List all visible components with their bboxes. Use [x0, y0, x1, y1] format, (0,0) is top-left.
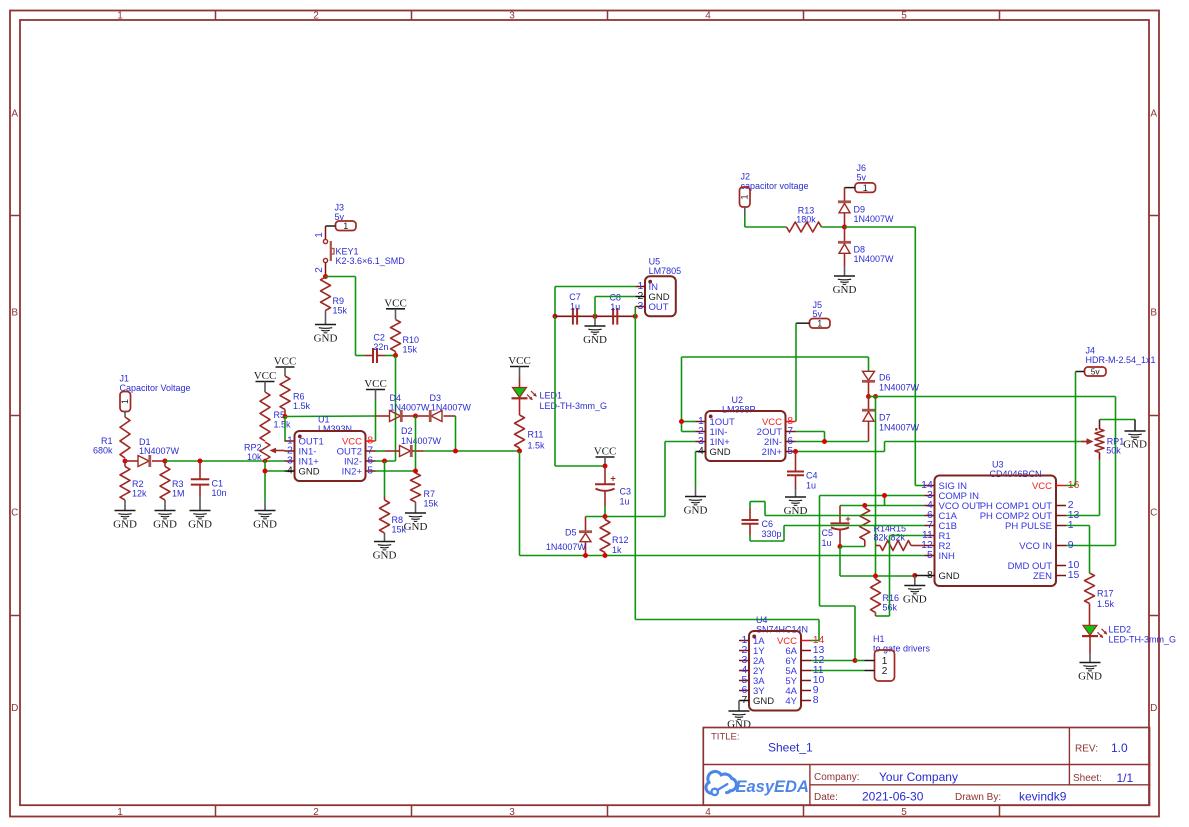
svg-text:GND: GND	[253, 519, 277, 531]
node U4 6Y junction	[853, 658, 858, 663]
node J1/R1-D1 junction	[123, 459, 128, 464]
resistor R17	[1085, 573, 1115, 625]
wire U5 OUT down	[634, 307, 636, 620]
svg-text:R11: R11	[528, 430, 544, 440]
svg-text:2021-06-30: 2021-06-30	[862, 789, 924, 803]
wire KEY1 to C2	[326, 277, 366, 356]
ground R8	[374, 541, 395, 543]
diode D1	[125, 437, 180, 467]
svg-text:2: 2	[314, 267, 325, 273]
svg-text:1N4007W: 1N4007W	[879, 382, 920, 392]
svg-text:GND: GND	[1123, 439, 1147, 451]
connector J1	[120, 374, 191, 418]
svg-text:15k: 15k	[424, 499, 439, 509]
wire R11 node down to bottom bus	[519, 451, 521, 556]
svg-text:1u: 1u	[822, 538, 832, 548]
svg-text:1.5k: 1.5k	[293, 401, 311, 411]
node R7 top junction	[413, 469, 418, 474]
node KEY1/R9 junction	[323, 274, 328, 279]
svg-text:kevindk9: kevindk9	[1019, 789, 1067, 803]
capacitor C7	[569, 292, 581, 325]
svg-text:U1: U1	[318, 415, 330, 425]
wire C2/R10 node down to U1 pin6 net	[376, 356, 396, 462]
svg-text:D: D	[1150, 703, 1157, 714]
node D4/D3 junction	[413, 414, 418, 419]
wire R6 junction down to U1 pin1	[284, 417, 287, 442]
diode D4	[375, 393, 431, 422]
capacitor C8	[609, 293, 621, 325]
wire D6/D7 node down to GND row	[875, 397, 877, 577]
svg-text:1: 1	[117, 807, 123, 818]
node R12 bottom junction	[603, 553, 608, 558]
svg-text:OUT: OUT	[649, 302, 669, 313]
svg-text:GND: GND	[753, 696, 774, 707]
svg-text:U5: U5	[649, 257, 661, 267]
LED LED1	[512, 377, 608, 415]
ground R2	[115, 510, 136, 512]
svg-text:1: 1	[817, 319, 822, 329]
wire J5 to U2 VCC	[795, 323, 797, 421]
svg-text:5: 5	[787, 445, 793, 457]
svg-text:C5: C5	[822, 528, 834, 538]
wire D3 to D2 output net	[455, 416, 457, 451]
svg-text:RP2: RP2	[244, 443, 262, 453]
wire bottom bus to U3 INH	[520, 555, 925, 557]
svg-text:8: 8	[813, 694, 819, 706]
svg-text:1N4007W: 1N4007W	[546, 542, 587, 552]
svg-text:1: 1	[343, 221, 348, 231]
node D5 bottom junction	[583, 553, 588, 558]
wire C3 bottom net	[586, 442, 696, 517]
svg-text:GND: GND	[710, 447, 731, 458]
wire C1A net to C6	[750, 502, 925, 516]
resistor R1	[93, 417, 130, 458]
svg-text:A: A	[11, 109, 18, 120]
wire 2IN+ to RP1 wiper	[796, 442, 1082, 452]
svg-text:GND: GND	[727, 719, 751, 731]
svg-text:C4: C4	[806, 470, 818, 480]
wire VCC to U1 pin8	[375, 400, 377, 441]
svg-text:GND: GND	[903, 593, 927, 605]
wire U3 GND pin	[915, 575, 925, 577]
svg-text:GND: GND	[1078, 671, 1102, 683]
title block	[703, 728, 1150, 806]
svg-text:C6: C6	[762, 519, 774, 529]
wire C5/R14 bottoms to GND row	[840, 547, 915, 577]
svg-text:GND: GND	[299, 466, 320, 477]
svg-text:ZEN: ZEN	[1033, 571, 1052, 582]
svg-text:D5: D5	[565, 527, 577, 537]
wire J4 to U3 VCC pin16	[1066, 372, 1076, 486]
svg-text:1u: 1u	[610, 302, 620, 312]
resistor R15	[876, 524, 925, 551]
svg-text:CD4046BCN: CD4046BCN	[990, 469, 1042, 479]
svg-text:D6: D6	[879, 372, 891, 382]
node RP2 wiper row	[263, 459, 267, 463]
svg-text:1N4007W: 1N4007W	[854, 214, 895, 224]
svg-text:1/1: 1/1	[1117, 771, 1134, 785]
wire R13 to D9/D8 node	[822, 226, 845, 228]
svg-text:4: 4	[698, 445, 704, 457]
svg-text:GND: GND	[314, 333, 338, 345]
node C5 bottom junction	[838, 544, 843, 549]
svg-text:Your Company: Your Company	[879, 770, 958, 784]
svg-text:R1: R1	[101, 436, 113, 446]
wire main left net	[165, 460, 285, 462]
svg-text:1N4007W: 1N4007W	[139, 446, 180, 456]
wire U2 1OUT feedback net	[682, 357, 869, 432]
LED LED2	[1082, 624, 1176, 662]
svg-text:GND: GND	[188, 519, 212, 531]
svg-text:1u: 1u	[806, 480, 816, 490]
ground U4 pin7	[738, 701, 740, 712]
svg-text:4: 4	[705, 10, 711, 21]
svg-text:2IN+: 2IN+	[762, 447, 783, 458]
svg-text:4: 4	[705, 807, 711, 818]
wire RP1 top to GND	[1100, 419, 1136, 421]
resistor R9	[321, 277, 348, 325]
svg-text:5: 5	[927, 549, 933, 561]
resistor R13	[787, 206, 822, 232]
potentiometer RP2	[244, 442, 285, 462]
svg-text:1N4007W: 1N4007W	[390, 402, 431, 412]
svg-text:1N4007W: 1N4007W	[854, 254, 895, 264]
svg-text:IN2+: IN2+	[342, 466, 363, 477]
svg-text:LED-TH-3mm_G: LED-TH-3mm_G	[540, 401, 608, 411]
svg-text:82k: 82k	[874, 533, 889, 543]
resistor R8	[380, 497, 407, 542]
node U1 pin6 junction	[382, 459, 387, 464]
ground U2 pin4	[695, 452, 697, 497]
svg-text:1.5k: 1.5k	[528, 441, 546, 451]
svg-text:GND: GND	[153, 519, 177, 531]
ground U3 pin8	[914, 576, 916, 586]
svg-text:180k: 180k	[796, 214, 816, 224]
svg-text:PH PULSE: PH PULSE	[1005, 521, 1052, 532]
svg-text:R17: R17	[1097, 588, 1114, 598]
ground RP1	[1134, 420, 1136, 432]
svg-text:5v: 5v	[857, 173, 867, 183]
svg-text:A: A	[1150, 109, 1157, 120]
svg-text:K2-3.6×6.1_SMD: K2-3.6×6.1_SMD	[336, 256, 406, 266]
svg-text:REV:: REV:	[1075, 744, 1098, 755]
svg-text:D7: D7	[879, 412, 891, 422]
wire J2 to R13	[745, 216, 787, 227]
resistor R3	[160, 461, 185, 511]
svg-text:GND: GND	[583, 334, 607, 346]
diode D7	[862, 397, 920, 442]
svg-text:1: 1	[863, 183, 868, 193]
svg-text:LED1: LED1	[540, 391, 563, 401]
svg-text:D: D	[11, 703, 18, 714]
ground R9	[315, 324, 336, 326]
svg-text:C: C	[11, 508, 18, 519]
svg-text:LED2: LED2	[1109, 624, 1132, 634]
ground RP2	[255, 510, 276, 512]
svg-text:2: 2	[882, 666, 888, 677]
svg-text:1.5k: 1.5k	[274, 420, 292, 430]
node D1-R3 junction	[163, 459, 168, 464]
connector J5	[796, 300, 830, 329]
svg-text:Drawn By:: Drawn By:	[955, 792, 1001, 803]
wire C7/C8 row	[555, 315, 635, 317]
svg-text:TITLE:: TITLE:	[711, 732, 740, 743]
svg-text:C3: C3	[620, 486, 632, 496]
diode D8	[838, 227, 894, 276]
node U5 OUT junction	[633, 314, 638, 319]
op-amp U1 LM393N	[285, 415, 376, 482]
node C3 bottom junction	[603, 514, 608, 519]
ground C1	[190, 510, 211, 512]
resistor R6	[280, 376, 311, 417]
svg-text:Sheet_1: Sheet_1	[768, 741, 813, 755]
diode D5	[546, 517, 592, 556]
connector J6	[845, 163, 876, 193]
wire 6Y to H1 pin1	[855, 660, 865, 662]
node C1 junction	[198, 459, 203, 464]
svg-text:VCC: VCC	[364, 378, 387, 390]
wire R13 node to U3 SIG IN	[845, 227, 925, 486]
resistor R2	[120, 461, 147, 511]
svg-text:2: 2	[313, 807, 319, 818]
svg-text:5: 5	[367, 464, 373, 476]
svg-text:VCC: VCC	[594, 446, 617, 458]
wire pin6 node down to R8	[384, 461, 386, 497]
svg-text:LM358P: LM358P	[722, 404, 756, 414]
node U2 pin1 junction	[679, 419, 684, 424]
node R5/R6 output junction	[283, 414, 288, 419]
node R14 top junction	[862, 503, 867, 508]
svg-text:GND: GND	[684, 505, 708, 517]
svg-text:VCC: VCC	[274, 356, 297, 368]
wire U3 PH PULSE to R17	[1066, 526, 1090, 574]
node C2/R10 junction	[393, 353, 398, 358]
capacitor C6	[742, 508, 782, 539]
svg-text:1u: 1u	[570, 301, 580, 311]
svg-text:10n: 10n	[212, 488, 227, 498]
svg-text:7: 7	[741, 694, 747, 706]
diode D3	[416, 393, 472, 422]
wire R16 bottom to U3 R1 pin	[876, 536, 925, 617]
node C3 top junction	[603, 464, 608, 469]
wire U5 OUT to U4 VCC	[635, 620, 819, 641]
svg-text:680k: 680k	[93, 446, 113, 456]
svg-text:1.5k: 1.5k	[1097, 599, 1115, 609]
wire U4 5A to H1 pin2	[811, 670, 865, 672]
node COMP IN junction	[882, 493, 887, 498]
wire D4/D3 node down to R7	[415, 416, 417, 471]
capacitor C1	[191, 461, 227, 511]
svg-text:5: 5	[901, 807, 907, 818]
svg-text:50k: 50k	[1106, 446, 1121, 456]
node U3 GND pin junction	[912, 573, 917, 578]
svg-text:LM7805: LM7805	[649, 266, 682, 276]
node C7 left junction	[553, 314, 558, 319]
ic U3 CD4046BCN	[921, 460, 1079, 586]
svg-text:VCC: VCC	[508, 355, 531, 367]
svg-text:VCC: VCC	[1032, 481, 1052, 492]
svg-text:1: 1	[739, 194, 749, 199]
EasyEDA logo	[706, 771, 809, 795]
svg-text:R9: R9	[333, 296, 345, 306]
svg-text:1: 1	[120, 399, 130, 404]
svg-text:R8: R8	[392, 515, 404, 525]
ground C4	[785, 496, 806, 498]
ic U4 SN74HC14N	[739, 615, 825, 711]
wire U2 2OUT to 2IN- and D7	[796, 432, 869, 442]
wire U5 IN rail	[555, 287, 635, 317]
capacitor C3 polarized	[595, 466, 631, 507]
svg-text:5v: 5v	[1091, 367, 1101, 377]
connector H1	[865, 634, 931, 681]
ground LED2	[1080, 662, 1101, 664]
svg-text:LM393N: LM393N	[318, 424, 352, 434]
wire R6 junction to D4 row	[285, 415, 375, 418]
svg-text:Date:: Date:	[814, 792, 838, 803]
svg-text:1k: 1k	[612, 545, 622, 555]
node R13/D9/D8 junction	[842, 225, 847, 230]
wire U5 GND pin to mid node	[595, 297, 635, 317]
node D3/D2 junction	[453, 449, 458, 454]
node C7/C8 mid junction	[593, 314, 598, 319]
svg-text:1u: 1u	[620, 496, 630, 506]
wire RP2 bottom to GND net	[265, 460, 285, 511]
svg-text:GND: GND	[373, 550, 397, 562]
wire IN rail down to C3 VCC node	[555, 316, 605, 466]
resistor R10	[391, 320, 420, 356]
svg-text:3: 3	[509, 807, 515, 818]
node R11 bottom junction	[517, 449, 522, 454]
ground C7/C8	[594, 316, 596, 326]
ground R7	[405, 512, 426, 514]
svg-text:VCO IN: VCO IN	[1019, 541, 1052, 552]
wire C2 to R10 node	[385, 355, 396, 357]
svg-text:4: 4	[287, 464, 293, 476]
wire VCO OUT row	[840, 505, 925, 507]
wire COMP IN net to U4 6Y	[811, 660, 855, 662]
wire D6/D7 node to VCO IN	[876, 397, 1116, 546]
svg-text:EasyEDA: EasyEDA	[736, 778, 809, 796]
svg-text:15k: 15k	[333, 306, 348, 316]
capacitor C2	[365, 333, 388, 364]
ground D8	[834, 275, 855, 277]
node D6/D7 junction pair	[866, 394, 878, 399]
svg-text:GND: GND	[833, 284, 857, 296]
op-amp U2 LM358P	[696, 395, 796, 461]
svg-text:C: C	[1150, 508, 1157, 519]
svg-text:Sheet:: Sheet:	[1073, 773, 1102, 784]
svg-text:15k: 15k	[403, 344, 418, 354]
svg-text:330p: 330p	[762, 529, 782, 539]
svg-text:1N4007W: 1N4007W	[431, 402, 472, 412]
svg-text:R6: R6	[293, 392, 305, 402]
wire C6 bottom to C1B net	[750, 526, 925, 542]
svg-text:VCC: VCC	[384, 297, 407, 309]
connector J2	[739, 172, 808, 216]
svg-text:1N4007W: 1N4007W	[879, 423, 920, 433]
node RP2/pin4 junction	[263, 469, 268, 474]
svg-text:+: +	[610, 473, 616, 484]
svg-text:R12: R12	[612, 535, 629, 545]
svg-text:to gate drivers: to gate drivers	[873, 644, 931, 654]
svg-text:Capacitor Voltage: Capacitor Voltage	[120, 383, 191, 393]
svg-text:Company:: Company:	[814, 772, 860, 783]
svg-text:82k: 82k	[891, 533, 906, 543]
diode D2	[376, 426, 442, 457]
svg-text:HDR-M-2.54_1x1: HDR-M-2.54_1x1	[1086, 355, 1156, 365]
node U2 pin5 junction	[793, 449, 798, 454]
diode D9	[838, 188, 894, 227]
svg-text:9: 9	[1068, 539, 1074, 551]
svg-text:GND: GND	[939, 571, 960, 582]
svg-text:12k: 12k	[132, 488, 147, 498]
wire COMP IN net	[820, 496, 925, 661]
svg-text:GND: GND	[404, 521, 428, 533]
svg-text:INH: INH	[939, 551, 956, 562]
svg-text:GND: GND	[113, 519, 137, 531]
svg-text:3: 3	[509, 10, 515, 21]
svg-text:1: 1	[314, 232, 325, 238]
svg-text:5: 5	[901, 10, 907, 21]
svg-text:VCC: VCC	[254, 370, 277, 382]
resistor R14	[860, 506, 890, 547]
wire U1 pin5 to R7	[376, 470, 416, 472]
svg-text:1.0: 1.0	[1111, 741, 1128, 755]
wire RP1 bottom to U3 pin13	[1066, 460, 1100, 516]
resistor R5	[260, 392, 291, 441]
svg-text:LED-TH-3mm_G: LED-TH-3mm_G	[1109, 635, 1177, 645]
wire D2 output to LED node	[424, 450, 520, 452]
svg-text:B: B	[11, 308, 18, 319]
svg-text:B: B	[1150, 308, 1157, 319]
svg-text:R16: R16	[883, 593, 900, 603]
svg-text:22n: 22n	[373, 342, 388, 352]
svg-text:15: 15	[1068, 569, 1080, 581]
svg-text:2: 2	[313, 10, 319, 21]
svg-text:1: 1	[117, 10, 123, 21]
svg-text:1M: 1M	[172, 488, 185, 498]
diode D6	[862, 371, 920, 396]
svg-text:3: 3	[637, 300, 643, 312]
resistor R7	[411, 473, 439, 513]
switch KEY1	[314, 232, 405, 277]
svg-text:1N4007W: 1N4007W	[401, 436, 442, 446]
resistor R11	[515, 415, 546, 451]
ground R3	[155, 510, 176, 512]
svg-text:8: 8	[927, 569, 933, 581]
capacitor C5 polarized	[822, 506, 852, 549]
svg-text:10k: 10k	[247, 452, 262, 462]
svg-text:4Y: 4Y	[785, 696, 797, 707]
capacitor C4	[787, 452, 818, 498]
node 2OUT/2IN- junction	[822, 439, 827, 444]
potentiometer RP1	[1081, 420, 1124, 460]
connector J3	[326, 203, 357, 240]
svg-text:D2: D2	[401, 426, 413, 436]
regulator U5 LM7805	[635, 257, 681, 317]
node R16 top junction	[873, 574, 878, 579]
resistor R16	[871, 576, 900, 616]
svg-text:R7: R7	[424, 489, 436, 499]
connector J4	[1076, 346, 1156, 377]
resistor R12	[600, 517, 629, 556]
